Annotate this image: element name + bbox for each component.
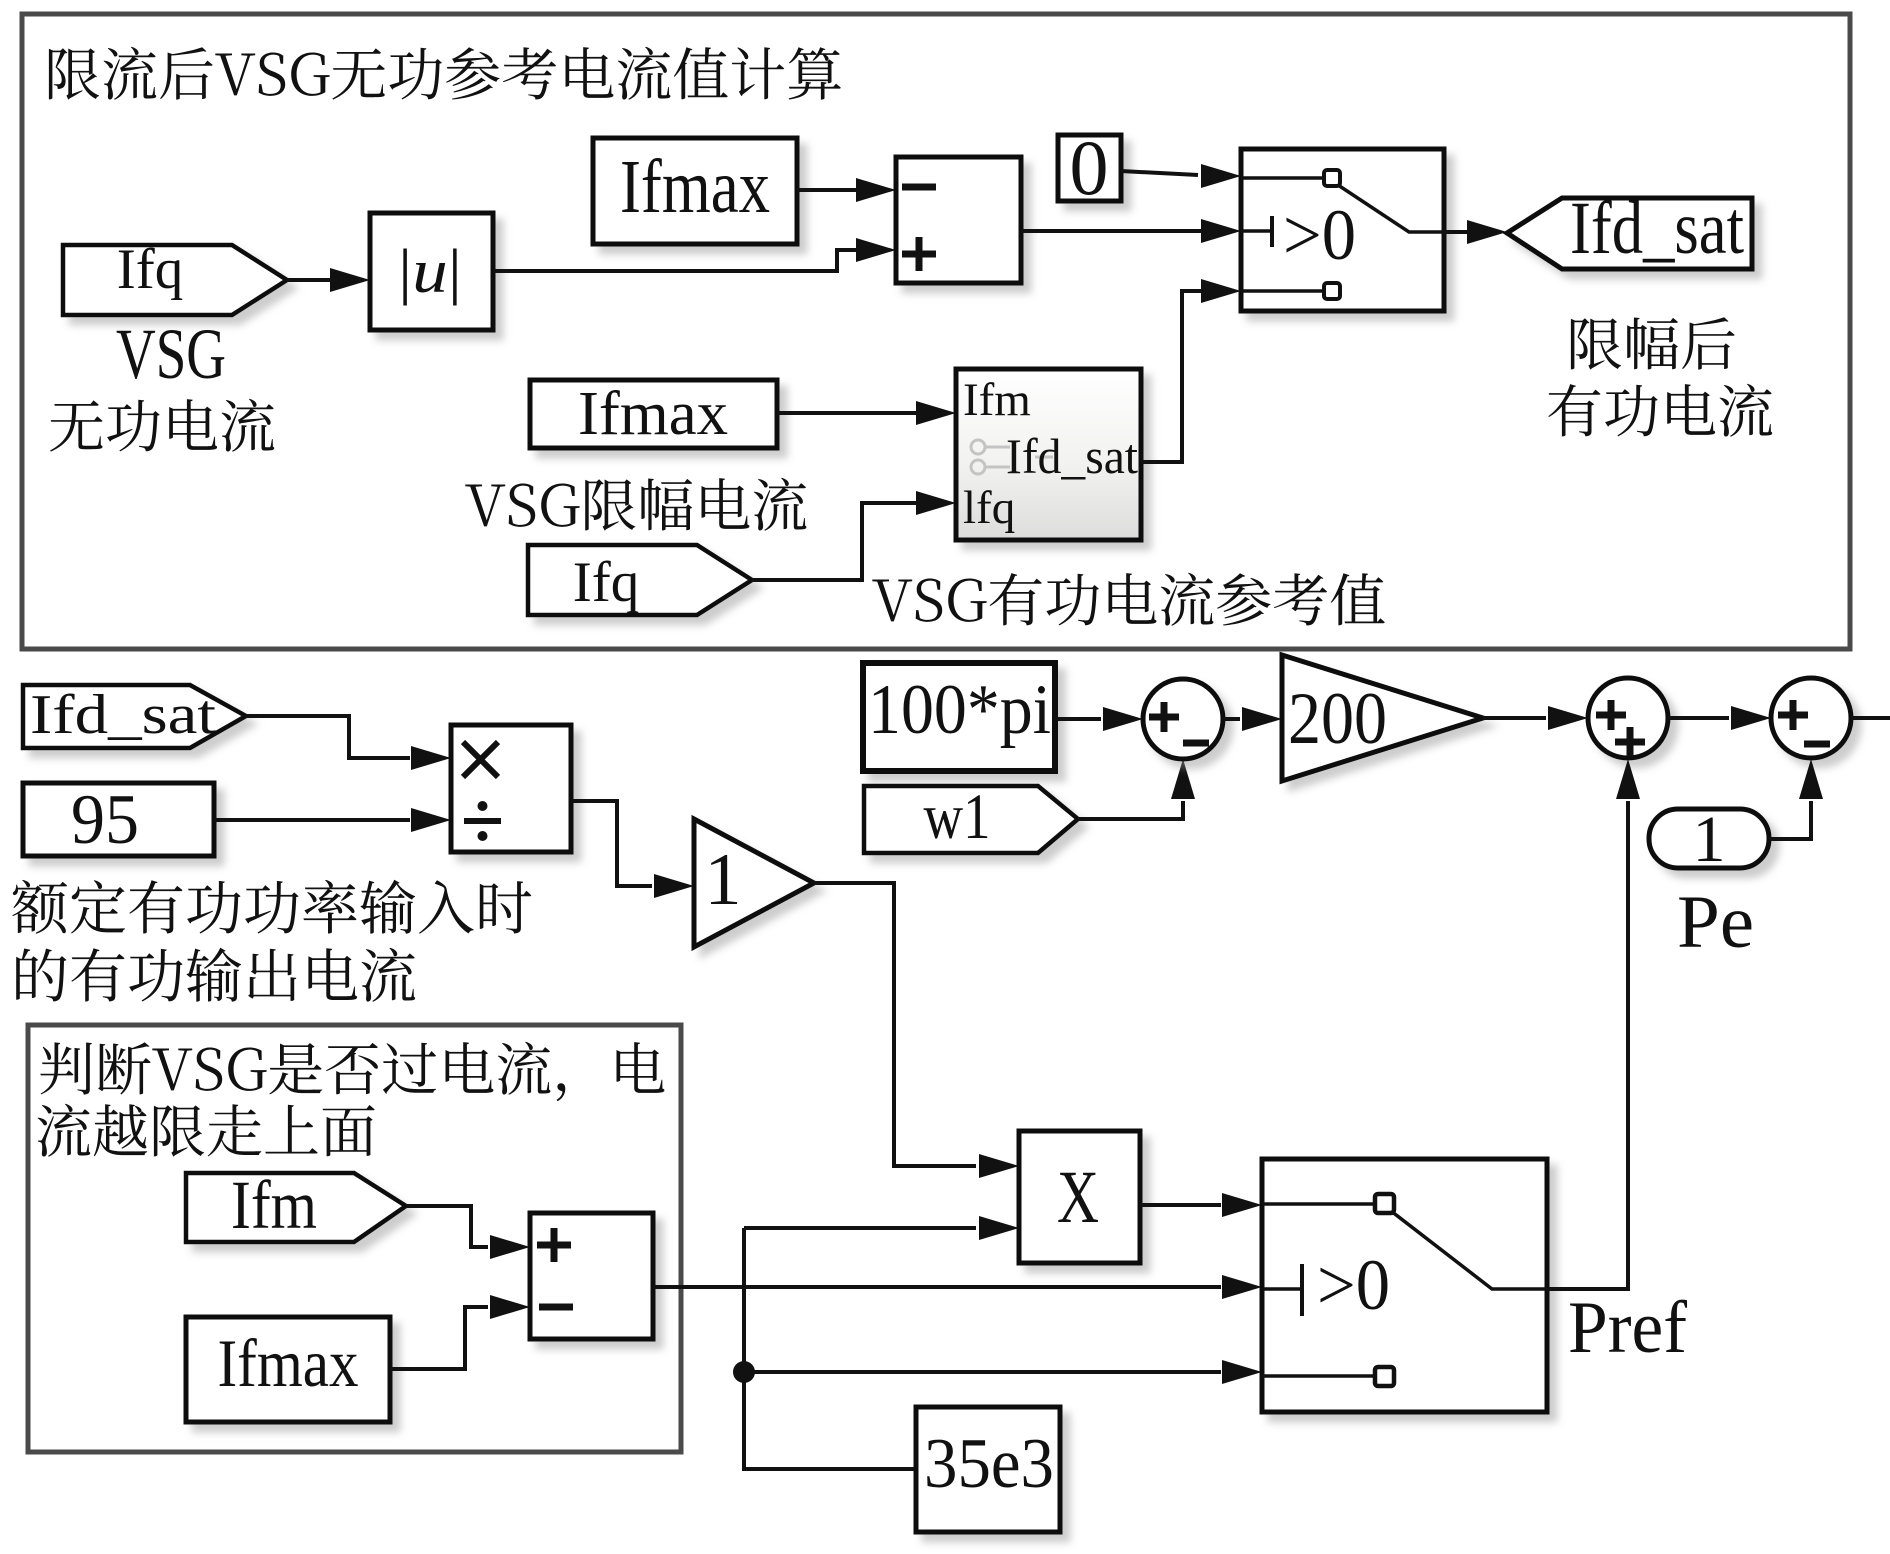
arrowhead into switch2 control <box>1222 1275 1262 1299</box>
arrowhead into product / input <box>411 808 451 832</box>
constant block Ifmax (top) <box>593 138 797 244</box>
annotation 流越限走上面 <box>38 1104 375 1157</box>
constant block 0 <box>1058 135 1121 201</box>
sum circle C <box>1771 678 1851 758</box>
switch1 port square top <box>1324 170 1340 186</box>
arrowhead into gain 1 <box>654 874 694 898</box>
switch1 threshold bar <box>1270 216 1274 247</box>
switch1 inner line input3 <box>1241 289 1324 293</box>
arrowhead into X input2 <box>979 1216 1019 1240</box>
constant block 100*pi <box>863 663 1055 771</box>
wire Ifmax3 to sum2 - input <box>390 1307 488 1369</box>
gain block 200 <box>1282 655 1483 781</box>
sum A sign + <box>1149 702 1179 732</box>
input port Ifq (lower) <box>528 545 752 615</box>
switch2 port square bottom <box>1375 1367 1394 1386</box>
arrowhead into sum A <box>1103 707 1143 731</box>
switch block (>0) top <box>1241 149 1444 311</box>
switch2 threshold tick <box>1262 1287 1302 1291</box>
wire Ifm to sum2 + input <box>406 1206 488 1247</box>
wire junction to switch2 input3 <box>744 1370 1221 1374</box>
gain block 1 <box>694 819 814 947</box>
title text 限流后VSG无功参考电流值计算 <box>49 47 841 100</box>
annotation 无功电流 <box>50 399 274 452</box>
svg-text:Ifd_sat: Ifd_sat <box>1570 187 1744 270</box>
annotation VSG有功电流参考值 <box>872 573 1385 626</box>
svg-text:Ifmax: Ifmax <box>578 380 728 448</box>
svg-text:VSG: VSG <box>116 314 226 394</box>
wire sum to switch control <box>1021 229 1202 233</box>
arrowhead into sum - input <box>856 178 896 202</box>
svg-text:Ifd_sat: Ifd_sat <box>30 684 217 746</box>
sum B sign + left <box>1596 700 1626 730</box>
wire sum B to sum C <box>1668 716 1729 720</box>
sum circle A <box>1143 679 1223 759</box>
switch1 selector diagonal <box>1338 185 1444 232</box>
arrowhead into sum B <box>1548 706 1588 730</box>
sum2 sign + <box>537 1228 571 1262</box>
wire subsystem to switch input3 <box>1141 291 1202 462</box>
sum block (minus plus) <box>896 157 1021 283</box>
junction dot <box>733 1361 755 1383</box>
svg-text:Ifq: Ifq <box>117 238 183 301</box>
svg-text:lfq: lfq <box>963 482 1015 534</box>
constant block 95 <box>23 783 214 856</box>
arrowhead into gain 200 <box>1242 707 1282 731</box>
arrowhead into product x input <box>411 746 451 770</box>
sum2 sign - <box>539 1304 573 1311</box>
arrowhead into sum C <box>1731 706 1771 730</box>
sum sign + <box>902 237 936 271</box>
wire Ifmax to sum minus input <box>797 188 858 192</box>
wire 95 to product divide input <box>214 818 410 822</box>
svg-text:Ifmax: Ifmax <box>620 145 770 229</box>
source block 1 (Pe) <box>1649 809 1769 868</box>
arrowhead into sum C bottom <box>1799 759 1823 799</box>
constant block Ifmax (bottom) <box>186 1317 390 1422</box>
wire Ifmax2 to subsystem Ifm <box>777 411 918 415</box>
constant block 35e3 <box>916 1407 1060 1532</box>
arrowhead into sum B bottom <box>1616 759 1640 799</box>
arrowhead into Ifd_sat out port <box>1467 220 1507 244</box>
sum C sign - <box>1804 741 1830 748</box>
wire sum A to gain 200 <box>1223 717 1240 721</box>
arrowhead into switch2 input3 <box>1222 1360 1262 1384</box>
svg-text:w1: w1 <box>924 781 991 853</box>
svg-text:X: X <box>1057 1156 1099 1239</box>
switch1 port square bottom <box>1324 283 1340 299</box>
input port w1 <box>864 786 1078 853</box>
wire w1 to sum A bottom <box>1078 801 1183 819</box>
switch2 threshold bar <box>1300 1264 1304 1316</box>
annotation 限幅后 <box>1571 317 1735 369</box>
product sign divide <box>464 818 501 824</box>
arrowhead into subsystem lfq <box>916 491 956 515</box>
arrowhead into sum2 + <box>490 1235 530 1259</box>
wire Pe to sum C bottom <box>1769 801 1811 839</box>
sum C sign + <box>1778 700 1808 730</box>
annotation 判断VSG是否过电流，电 <box>40 1042 664 1102</box>
input port Ifm <box>186 1173 406 1242</box>
svg-text:>0: >0 <box>1317 1245 1390 1325</box>
constant block Ifmax (middle) <box>530 380 777 448</box>
svg-text:Pe: Pe <box>1677 881 1754 964</box>
annotation 额定有功功率输入时 <box>12 880 531 934</box>
arrowhead into X input1 <box>979 1154 1019 1178</box>
svg-text:|u|: |u| <box>398 238 462 306</box>
annotation VSG限幅电流 <box>465 478 806 531</box>
arrowhead into sum2 - <box>490 1295 530 1319</box>
wire 35e3 branch to X input2 <box>744 1226 976 1230</box>
svg-text:>0: >0 <box>1283 195 1356 275</box>
wire 0 to switch input1 <box>1121 171 1198 175</box>
input port Ifq (VSG reactive current) <box>63 245 287 315</box>
arrowhead into sum + input <box>856 238 896 262</box>
wire product to gain 1 <box>571 801 652 886</box>
sum sign - <box>902 184 936 191</box>
svg-text:0: 0 <box>1070 124 1109 211</box>
switch2 inner line input1 <box>1262 1202 1375 1206</box>
annotation frame: over-current check region <box>28 1025 681 1452</box>
product block X <box>1019 1131 1140 1263</box>
svg-text:200: 200 <box>1288 678 1387 760</box>
sum block 2 (plus minus) <box>530 1213 653 1339</box>
svg-text:1: 1 <box>705 839 742 921</box>
wire sum C output to edge <box>1851 716 1890 720</box>
svg-text:Ifd_sat: Ifd_sat <box>1006 428 1138 484</box>
svg-text:1: 1 <box>1693 803 1726 876</box>
svg-text:Pref: Pref <box>1568 1287 1687 1369</box>
switch2 port square top <box>1375 1194 1394 1213</box>
switch1 threshold tick <box>1241 229 1272 233</box>
wire sum2 to switch2 control <box>653 1285 1221 1289</box>
svg-text:95: 95 <box>71 781 139 859</box>
switch2 inner line input3 <box>1262 1374 1375 1378</box>
svg-text:Ifmax: Ifmax <box>218 1325 359 1401</box>
wire switch1 to Ifd_sat out <box>1444 230 1470 234</box>
arrowhead into switch2 input1 <box>1222 1193 1262 1217</box>
subsystem block Ifd_sat calc <box>956 369 1141 540</box>
product sign x <box>463 742 498 777</box>
wire switch2 output to sum B bottom <box>1547 801 1628 1289</box>
svg-text:Ifm: Ifm <box>231 1167 317 1243</box>
wire 35e3 to junction riser <box>744 1228 916 1469</box>
arrowhead into switch input1 <box>1201 164 1241 188</box>
svg-text:100*pi: 100*pi <box>868 671 1051 749</box>
svg-text:35e3: 35e3 <box>924 1425 1054 1503</box>
annotation frame: top subsystem region <box>22 14 1850 649</box>
wire gain200 to sum B <box>1483 716 1546 720</box>
switch2 selector diagonal <box>1391 1211 1547 1289</box>
arrowhead into |u| <box>330 268 370 292</box>
arrowhead into subsystem Ifm <box>916 401 956 425</box>
sum circle B <box>1588 678 1668 758</box>
wire gain1 to X block input1 <box>814 883 976 1166</box>
wire Ifq to |u| <box>287 278 332 282</box>
wire |u| to sum plus input <box>493 250 858 271</box>
output port Ifd_sat <box>1507 198 1752 269</box>
switch1 inner line input1 <box>1241 176 1324 180</box>
subsystem ghost icon <box>971 440 1053 474</box>
input port Ifd_sat (middle) <box>23 685 246 748</box>
wire X to switch2 input1 <box>1140 1203 1221 1207</box>
wire 100*pi to sum circle A <box>1055 717 1101 721</box>
sum A sign - <box>1183 740 1209 747</box>
wire Ifq2 to subsystem lfq <box>752 503 918 580</box>
annotation 的有功输出电流 <box>16 948 415 1002</box>
switch block (>0) bottom <box>1262 1159 1547 1412</box>
annotation 有功电流 <box>1548 384 1772 437</box>
svg-text:Ifm: Ifm <box>963 374 1031 426</box>
abs block |u| <box>370 213 493 330</box>
sum B sign + bottom <box>1615 727 1645 757</box>
wire Ifd_sat to product <box>246 716 410 758</box>
product block multiply-divide <box>451 725 571 852</box>
svg-text:Ifq: Ifq <box>573 551 639 614</box>
arrowhead into sum A bottom <box>1171 759 1195 799</box>
arrowhead into switch control <box>1201 219 1241 243</box>
arrowhead into switch input3 <box>1201 279 1241 303</box>
